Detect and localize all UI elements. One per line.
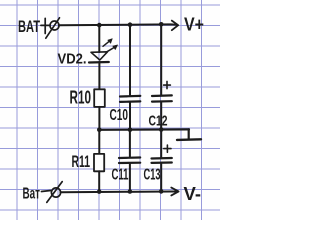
wire mid bus to R11 [98,130,100,154]
terminal X1 BAT+ [46,18,60,38]
wire C11 to bottom [129,163,131,192]
svg-text:V-: V- [184,183,201,204]
wire mid bus to C13 [160,130,162,158]
wire C12 to mid bus [160,102,162,130]
junction node mid-R [97,128,102,133]
arrow V- [171,188,178,196]
arrow V+ [172,21,178,31]
wire mid bus to C11 [129,130,131,158]
LED VD2 [89,39,118,63]
svg-text:R11: R11 [72,153,91,171]
wire VD2 cathode to R10 [98,62,100,89]
label BAT+ [18,17,49,36]
junction node bottom-C13 [159,189,164,194]
junction node mid-C12 [159,127,164,132]
wire mid bus [99,128,189,131]
wire top to C10 [129,25,131,96]
junction node top-C10 [128,22,133,27]
svg-text:C10: C10 [110,107,129,124]
polarity + of C12 [164,81,171,88]
junction node mid-C10 [128,127,133,132]
svg-text:C13: C13 [144,167,161,184]
wire C10 to mid bus [129,102,131,130]
wire V+ rail [59,23,177,26]
svg-text:VD2.: VD2. [58,51,87,68]
svg-text:C11: C11 [112,167,129,184]
junction node bottom-R11 [97,189,102,194]
junction node top-C12 [159,22,164,27]
chassis ground [177,129,201,140]
resistor R11 [94,154,104,171]
wire R10 to mid bus [98,107,100,130]
wire V- rail [61,191,179,194]
junction node top-LED [97,23,102,28]
wire top to C12 [160,24,162,95]
capacitor C13 [152,158,172,163]
junction node bottom-C11 [128,189,133,194]
capacitor C12 [152,95,172,101]
svg-text:Bат: Bат [23,186,41,203]
terminal X2 BAT- [47,182,62,203]
resistor R10 [94,89,105,107]
svg-text:C12: C12 [149,113,168,130]
wire R11 to bottom [98,171,100,191]
capacitor C10 [120,96,140,102]
wire top to VD2 anode [98,25,100,52]
svg-text:V+: V+ [184,14,204,35]
capacitor C11 [119,158,140,164]
svg-text:R10: R10 [70,88,92,108]
wire C13 to bottom [160,163,162,192]
polarity + of C13 [164,145,171,152]
label BAT- [23,186,51,203]
svg-text:BAT: BAT [18,17,40,36]
